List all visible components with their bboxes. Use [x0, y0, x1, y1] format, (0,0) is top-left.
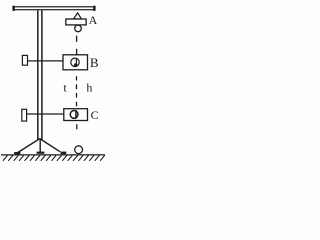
photogate C beam mark — [75, 110, 77, 119]
fall line (dashed) — [76, 36, 78, 130]
tripod center foot pad — [37, 152, 45, 154]
stand pole left line — [37, 10, 39, 139]
photogate B sensor circle — [71, 58, 79, 66]
tripod left foot pad — [14, 152, 20, 154]
arm right end cap — [93, 6, 95, 11]
photogate C body — [64, 109, 88, 121]
photogate C sensor circle — [70, 111, 78, 119]
clamp for photogate C — [22, 109, 27, 121]
steel ball resting on ground — [75, 146, 83, 154]
svg-text:C: C — [91, 108, 99, 122]
clamp for photogate B — [22, 55, 27, 65]
ground line — [1, 154, 105, 156]
stand pole right line — [41, 10, 43, 139]
photogate B beam mark — [75, 58, 77, 66]
svg-text:A: A — [89, 13, 98, 27]
tripod left leg — [18, 139, 40, 153]
support arm (top horizontal bar) — [13, 7, 95, 10]
release mechanism A: body — [66, 19, 86, 25]
tripod right leg — [40, 139, 60, 152]
svg-text:B: B — [90, 55, 99, 70]
arm left end cap — [12, 6, 14, 11]
photogate B body — [63, 55, 88, 70]
release mechanism A: hook triangle — [73, 13, 81, 19]
ground hatching — [3, 155, 105, 160]
rod to photogate B — [28, 60, 64, 62]
tripod right foot pad — [61, 152, 67, 155]
steel ball held at A — [75, 25, 82, 32]
tripod center post — [39, 139, 41, 153]
svg-text:h: h — [86, 80, 92, 94]
rod to photogate C — [27, 113, 64, 115]
photogate B beam dot — [74, 63, 77, 66]
